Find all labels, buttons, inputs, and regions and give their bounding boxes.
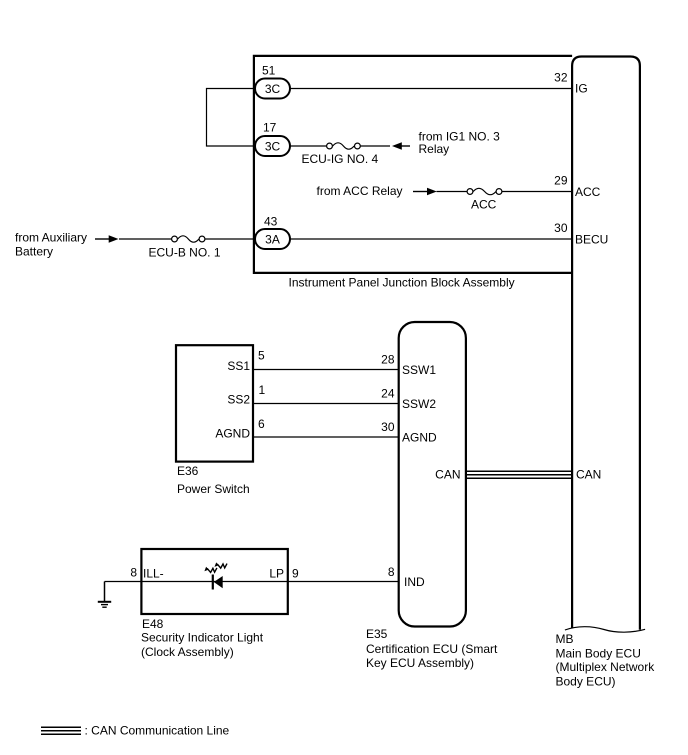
ECU MB: Main Body ECU outline: [572, 57, 640, 630]
svg-text:Security Indicator Light: Security Indicator Light: [141, 631, 264, 645]
label: MB Main Body ECU (Multiplex Network Body ECU): [556, 632, 656, 689]
svg-text:8: 8: [130, 565, 137, 579]
wire: BECU line pin 43 to MB pin 30: [290, 238, 572, 240]
wire: arrowhead to fuse ECU-B NO. 1: [119, 238, 175, 240]
label: from Auxiliary Battery: [15, 231, 87, 259]
LED light rays: [204, 562, 227, 572]
wire: fuse ECU-IG NO. 4 to arrowhead: [357, 145, 390, 147]
svg-text:43: 43: [264, 215, 278, 229]
LED D1: security indicator diode: [213, 575, 223, 590]
svg-text:Main Body ECU: Main Body ECU: [556, 646, 641, 660]
switch E36: Power Switch box: [176, 345, 253, 461]
svg-text:Key ECU Assembly): Key ECU Assembly): [366, 656, 474, 670]
svg-text:AGND: AGND: [215, 427, 250, 441]
svg-text:(Multiplex Network: (Multiplex Network: [556, 660, 656, 674]
svg-text:SS1: SS1: [227, 359, 250, 373]
connector pin 3C (17): [255, 136, 290, 156]
svg-text:51: 51: [262, 64, 276, 78]
ECU E35: Certification ECU outline: [399, 322, 466, 627]
svg-text:from Auxiliary: from Auxiliary: [15, 231, 87, 245]
svg-text:SSW1: SSW1: [402, 363, 436, 377]
svg-text:ACC: ACC: [471, 198, 497, 212]
svg-text:32: 32: [554, 71, 568, 85]
svg-text:LP: LP: [269, 566, 284, 580]
fuse ECU-IG NO. 4: [327, 143, 361, 149]
junction block: Instrument Panel Junction Block Assembly: [254, 56, 572, 273]
svg-text:3C: 3C: [265, 82, 281, 96]
wire: IG line pin 51 to MB pin 32: [290, 88, 572, 90]
wire: fuse ACC to MB pin 29: [499, 191, 572, 193]
svg-text:30: 30: [381, 420, 395, 434]
svg-text:Certification ECU (Smart: Certification ECU (Smart: [366, 642, 498, 656]
svg-text:Power Switch: Power Switch: [177, 482, 250, 496]
svg-text:3A: 3A: [265, 232, 280, 246]
wire: pin 17 to fuse ECU-IG NO. 4: [290, 145, 330, 147]
fuse ECU-B NO. 1: [172, 236, 205, 242]
svg-text:ACC: ACC: [575, 185, 601, 199]
svg-text:1: 1: [259, 383, 266, 397]
svg-text:E36: E36: [177, 464, 199, 478]
arrow: from Auxiliary Battery (pointing right): [95, 235, 119, 242]
wire: AGND to AGND: [253, 436, 399, 438]
svg-text:CAN: CAN: [435, 467, 460, 481]
wire: arrowhead to fuse ACC: [437, 191, 471, 193]
svg-text:30: 30: [554, 221, 568, 235]
wire: fuse ECU-B NO. 1 to pin 43: [202, 238, 255, 240]
CAN bus triple line: [466, 471, 572, 478]
svg-text:ECU-B NO. 1: ECU-B NO. 1: [149, 246, 221, 260]
svg-text:17: 17: [263, 121, 277, 135]
svg-text:24: 24: [381, 387, 395, 401]
svg-text:(Clock Assembly): (Clock Assembly): [141, 645, 234, 659]
svg-text:: CAN Communication Line: : CAN Communication Line: [85, 724, 230, 738]
svg-text:SS2: SS2: [227, 393, 250, 407]
label: from IG1 NO. 3 Relay: [419, 130, 501, 157]
label: E36 Power Switch: [177, 464, 250, 496]
wire: jumper from pin 51 to pin 17: [207, 89, 256, 147]
label: E48 Security Indicator Light (Clock Assembly): [141, 617, 264, 659]
arrow: from IG1 NO. 3 Relay (pointing left): [392, 142, 410, 149]
wire: SS1 to SSW1: [253, 369, 399, 371]
svg-text:ILL-: ILL-: [143, 566, 164, 580]
svg-text:MB: MB: [556, 632, 574, 646]
svg-text:IND: IND: [404, 575, 425, 589]
lamp E48: Security Indicator Light box: [141, 549, 287, 614]
svg-text:8: 8: [388, 565, 395, 579]
svg-text:CAN: CAN: [576, 467, 601, 481]
connector pin 3C (51): [255, 79, 290, 99]
svg-text:6: 6: [258, 417, 265, 431]
svg-text:Relay: Relay: [419, 142, 450, 156]
svg-text:SSW2: SSW2: [402, 397, 436, 411]
svg-text:29: 29: [554, 174, 568, 188]
svg-text:Battery: Battery: [15, 245, 53, 259]
legend: CAN communication line symbol: [41, 727, 81, 734]
fuse ACC: [467, 188, 502, 194]
svg-text:28: 28: [381, 353, 395, 367]
svg-text:Body ECU): Body ECU): [556, 674, 616, 688]
svg-text:E35: E35: [366, 627, 388, 641]
svg-text:5: 5: [258, 349, 265, 363]
connector pin 3A (43): [255, 229, 290, 249]
ground: [98, 582, 111, 608]
svg-text:3C: 3C: [265, 139, 281, 153]
wire: SS2 to SSW2: [253, 403, 399, 405]
svg-text:IG: IG: [575, 82, 588, 96]
svg-text:AGND: AGND: [402, 430, 437, 444]
svg-text:ECU-IG NO. 4: ECU-IG NO. 4: [302, 152, 379, 166]
svg-text:BECU: BECU: [575, 233, 608, 247]
torn edge of Main Body ECU: [565, 627, 645, 633]
svg-text:from ACC Relay: from ACC Relay: [317, 184, 403, 198]
arrow: from ACC Relay (pointing right): [413, 188, 437, 195]
wire: ground to E48 to E35 IND: [105, 581, 399, 583]
svg-text:E48: E48: [142, 617, 164, 631]
label: E35 Certification ECU (Smart Key ECU Assembly): [366, 627, 498, 670]
svg-text:Instrument Panel Junction Bloc: Instrument Panel Junction Block Assembly: [289, 276, 515, 290]
svg-text:9: 9: [292, 566, 299, 580]
